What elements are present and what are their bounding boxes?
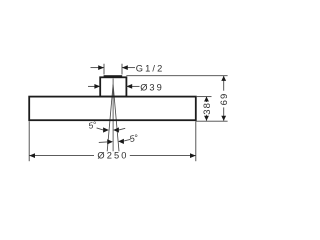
angle arrow upper-right (on center line): [113, 127, 119, 132]
tail of lower-left angle arrow: [99, 141, 107, 144]
69 dimension line: [223, 76, 225, 91]
angle arrow upper-left (on left spray line): [103, 127, 109, 132]
extension line connector top to 69 dim: [126, 75, 227, 77]
G1/2 dimension line left: [91, 67, 105, 69]
Ø39 arrow right: [126, 84, 132, 89]
Ø250 extension line left: [28, 121, 30, 161]
connector body fill: [100, 77, 126, 96]
38 arrow bottom: [204, 116, 209, 121]
tail of upper-right angle arrow: [119, 128, 125, 130]
angle arrow lower-left (on center line): [107, 139, 113, 144]
thread collar bar: [104, 75, 123, 77]
leader from left 5° label: [97, 128, 104, 130]
69 arrow top: [221, 76, 226, 81]
angle arrow lower-right (on right spray line): [118, 139, 124, 144]
spray line left: [107, 85, 113, 152]
svg-text:Ø250: Ø250: [97, 151, 128, 161]
G1/2 extension line right: [121, 64, 123, 75]
Ø39 dimension line left: [88, 85, 100, 87]
Ø250 dimension line left: [29, 155, 94, 157]
svg-text:Ø39: Ø39: [140, 82, 164, 92]
Ø250 extension line right: [195, 121, 197, 161]
Ø250 arrow left: [29, 153, 35, 158]
leader from right 5° label: [124, 139, 130, 141]
Ø250 arrow right: [190, 153, 196, 158]
38 arrow top: [204, 97, 209, 102]
connector outline: [100, 77, 126, 96]
G1/2 arrow left: [98, 65, 104, 70]
G1/2 arrow right: [122, 65, 128, 70]
G1/2 dimension line right: [122, 67, 135, 69]
69 arrow bottom: [221, 116, 226, 121]
svg-text:38: 38: [202, 102, 213, 115]
spray line center: [112, 79, 114, 152]
38 dimension line: [206, 96, 208, 102]
Ø39 dimension line right: [126, 85, 139, 87]
svg-text:69: 69: [219, 93, 230, 106]
spray line right: [113, 85, 119, 152]
G1/2 extension line left: [103, 64, 105, 75]
svg-text:G1/2: G1/2: [136, 63, 165, 73]
extension line disc top to 38 dim: [196, 96, 212, 98]
disc body fill: [29, 97, 196, 121]
disc outline: [29, 97, 196, 121]
Ø39 arrow left: [94, 84, 100, 89]
Ø250 dimension line right: [130, 155, 196, 157]
extension line disc bottom: [196, 120, 228, 122]
